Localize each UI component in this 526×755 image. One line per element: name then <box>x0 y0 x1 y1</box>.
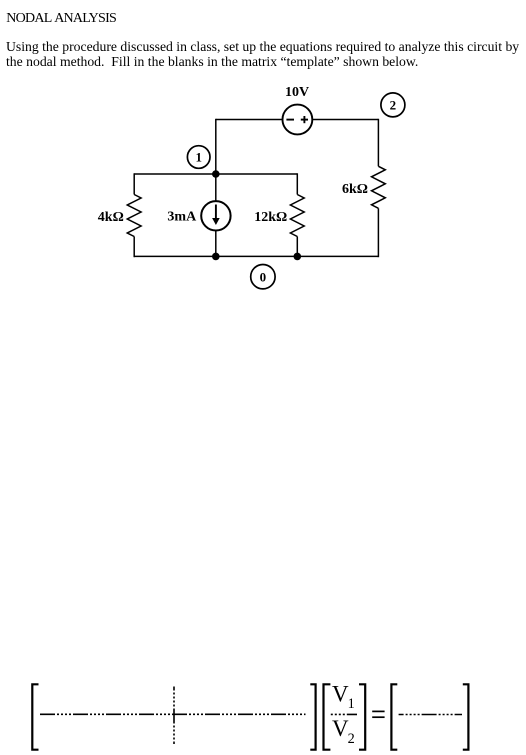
wire: node 1 riser (vertical from top wire down to node 1 junction) <box>215 119 217 174</box>
equals sign <box>372 711 384 717</box>
matrix template: coefficient matrix right bracket <box>310 684 315 749</box>
svg-text:V: V <box>332 716 349 741</box>
wire: 12k rail upper segment (middle wire to 12k resistor top) <box>296 173 298 194</box>
svg-text:3mA: 3mA <box>167 209 197 224</box>
svg-text:0: 0 <box>260 269 267 284</box>
right-hand-side blank line (dashed) <box>399 714 462 716</box>
junction dot: current source bottom on ground wire <box>212 253 220 261</box>
wire bottom: ground return (left rail to right rail) <box>134 255 378 257</box>
svg-text:10V: 10V <box>285 85 309 100</box>
matrix template: row blank line (dashed) <box>40 713 306 715</box>
right-hand-side vector: left bracket <box>391 684 397 749</box>
svg-text:V: V <box>332 682 349 707</box>
matrix template: column separator (vertical dashed) <box>173 687 175 745</box>
resistor 12k ohm (middle branch) <box>290 195 304 237</box>
node 1 label circle <box>187 146 210 169</box>
vector of unknowns: left bracket <box>324 684 331 749</box>
right-hand-side vector: right bracket <box>463 684 469 749</box>
node 0 label circle (reference node) <box>251 265 275 289</box>
junction dot: 12k bottom on ground wire <box>294 253 302 261</box>
svg-text:1: 1 <box>348 696 355 712</box>
voltage source 10V (circle with - + marks) <box>283 105 313 135</box>
wire: current source branch (node 1 junction down through source to bottom wire) <box>215 174 217 257</box>
svg-text:2: 2 <box>348 731 355 747</box>
vector of unknowns: right bracket <box>359 684 365 749</box>
junction dot at node 1 <box>212 170 220 178</box>
wire middle: node 1 horizontal wire (left rail to 12k rail) <box>134 173 297 175</box>
divider between V1 and V2 (short dashed) <box>331 713 357 715</box>
resistor 4k ohm (left branch) <box>127 195 141 237</box>
matrix template: coefficient matrix left bracket <box>32 684 38 749</box>
wire top: node 1 riser corner to V-source and to right rail corner <box>216 119 379 121</box>
wire: right rail upper segment (corner to 6k resistor top) <box>377 119 379 167</box>
unknown V1 <box>332 682 355 712</box>
svg-text:2: 2 <box>390 98 397 113</box>
wire: left rail lower segment (4k resistor bottom to bottom wire) <box>133 237 135 258</box>
resistor 6k ohm (right branch) <box>372 166 386 208</box>
svg-text:4kΩ: 4kΩ <box>98 210 124 225</box>
svg-text:12kΩ: 12kΩ <box>254 210 287 225</box>
unknown V2 <box>332 716 355 747</box>
wire: right rail lower segment (6k resistor bottom to bottom wire) <box>377 208 379 257</box>
current source 3mA (circle with down arrow) <box>201 201 230 230</box>
svg-text:1: 1 <box>195 150 202 165</box>
wire: left rail upper segment (middle wire to 4k resistor top) <box>133 173 135 194</box>
node 2 label circle <box>381 93 405 117</box>
svg-text:6kΩ: 6kΩ <box>342 182 368 197</box>
wire: 12k rail lower segment (12k resistor bottom to bottom wire) <box>296 237 298 258</box>
